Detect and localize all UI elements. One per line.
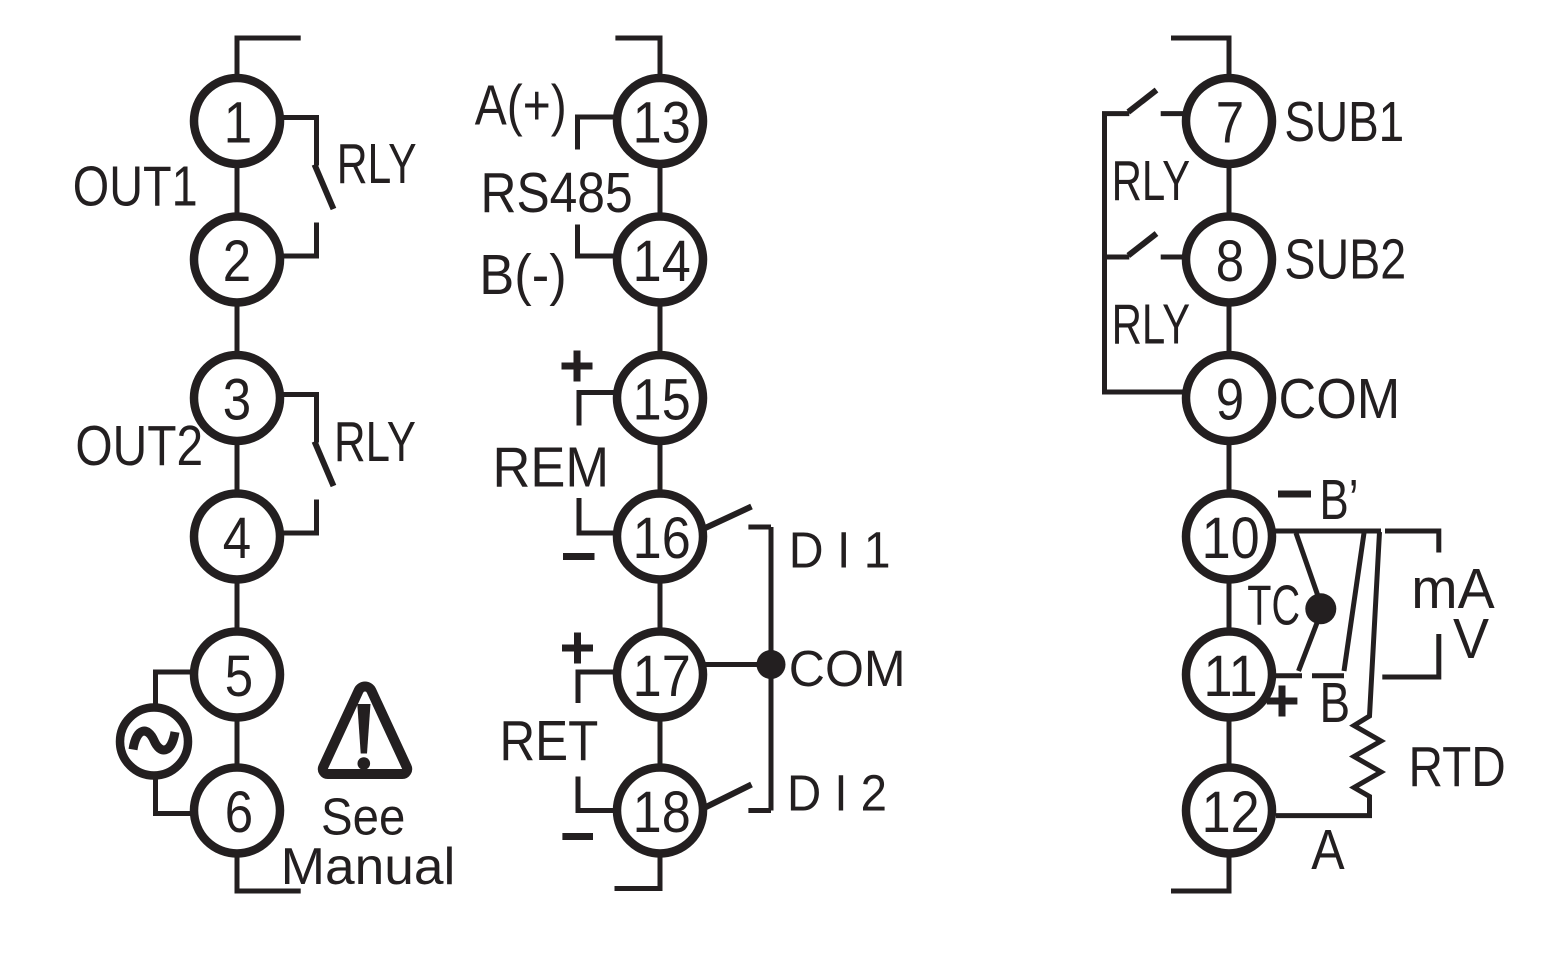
- relay RLY OUT2 blade: [315, 442, 334, 487]
- svg-text:D I 1: D I 1: [789, 521, 891, 579]
- wire terminal8-terminal9: [1227, 307, 1232, 352]
- svg-text:RLY: RLY: [334, 409, 416, 473]
- terminal 1: [194, 78, 280, 164]
- AC source sine symbol: [133, 731, 175, 750]
- wire terminal4-terminal5: [235, 584, 240, 628]
- wire top bracket column 3: [1171, 38, 1229, 74]
- wire terminal7-terminal8: [1227, 168, 1232, 213]
- wire terminal5-terminal6: [235, 722, 240, 764]
- svg-text:6: 6: [225, 780, 253, 845]
- svg-text:REM: REM: [493, 435, 610, 500]
- wire mA V bracket bottom: [1382, 634, 1439, 677]
- switch RLY SUB1 blade: [1128, 90, 1156, 112]
- svg-text:RET: RET: [500, 710, 599, 773]
- terminal 10: [1186, 494, 1272, 580]
- wire TC upper slant: [1296, 533, 1321, 604]
- polarity minus at B': [1278, 491, 1311, 498]
- resistor RTD with leads to terminal 12: [1276, 532, 1381, 816]
- terminal 11: [1186, 632, 1272, 718]
- terminal 17: [617, 632, 703, 718]
- wire A(+) lead to terminal 13: [578, 117, 615, 150]
- svg-text:A(+): A(+): [475, 74, 567, 138]
- wire RET plus lead to terminal 17: [578, 672, 614, 703]
- terminal 13: [617, 78, 703, 164]
- switch DI1 blade at terminal 16: [702, 507, 752, 530]
- wire REM minus lead to terminal 16: [579, 498, 614, 533]
- terminal 14: [617, 217, 703, 303]
- relay RLY OUT1 blade: [315, 165, 334, 210]
- svg-text:11: 11: [1204, 643, 1258, 708]
- wire terminal14-terminal15: [658, 307, 663, 352]
- svg-text:14: 14: [633, 228, 691, 293]
- wire DI common vertical: [769, 527, 774, 811]
- wire terminal 11 horizontal: [1275, 673, 1302, 678]
- wire terminal2-terminal3: [235, 307, 240, 352]
- svg-text:9: 9: [1216, 367, 1244, 432]
- wire bottom bracket column 2: [615, 858, 661, 889]
- wire terminal3-terminal4: [235, 445, 240, 490]
- wire top bracket column 1: [237, 38, 301, 74]
- polarity plus at B: [1267, 686, 1298, 717]
- svg-text:RTD: RTD: [1409, 735, 1506, 799]
- terminal 16: [617, 494, 703, 580]
- wire terminal10-terminal11: [1227, 584, 1232, 628]
- polarity minus at terminal 16: [563, 553, 595, 560]
- wire SUB2 relay tee: [1105, 255, 1130, 260]
- svg-text:RLY: RLY: [337, 131, 417, 195]
- wire terminal15-terminal16: [658, 445, 663, 490]
- svg-text:Manual: Manual: [281, 838, 456, 896]
- terminal 4: [194, 494, 280, 580]
- relay RLY OUT1 wire from terminal 2: [283, 223, 317, 257]
- svg-text:RLY: RLY: [1112, 292, 1191, 356]
- polarity plus at terminal 15: [562, 351, 593, 382]
- svg-text:V: V: [1453, 607, 1489, 671]
- wire terminal 10 top horizontal: [1275, 529, 1381, 534]
- svg-text:D I 2: D I 2: [787, 765, 887, 822]
- polarity minus at terminal 18: [562, 833, 593, 840]
- wire bottom bracket column 3: [1171, 858, 1229, 892]
- svg-text:SUB2: SUB2: [1284, 228, 1406, 291]
- wire bottom bracket column 1: [237, 858, 301, 892]
- wire REM plus lead to terminal 15: [579, 393, 614, 426]
- node COM junction dot: [757, 650, 786, 679]
- terminal 8: [1186, 217, 1272, 303]
- wire AC source to terminal 6: [156, 779, 191, 814]
- svg-text:COM: COM: [789, 640, 906, 698]
- svg-text:RS485: RS485: [481, 162, 633, 225]
- svg-text:10: 10: [1202, 505, 1260, 570]
- node TC junction dot: [1305, 593, 1336, 624]
- terminal 2: [194, 217, 280, 303]
- switch RLY SUB2 blade: [1128, 234, 1156, 256]
- wire DI1 top hook: [748, 525, 771, 530]
- svg-text:8: 8: [1216, 229, 1244, 294]
- svg-text:OUT2: OUT2: [75, 414, 203, 478]
- wire terminal13-terminal14: [658, 168, 663, 213]
- terminal 12: [1186, 768, 1272, 854]
- wire TC lower slant: [1299, 613, 1321, 671]
- wire terminal 17 to COM node: [704, 662, 765, 667]
- wire DI2 bottom hook: [748, 808, 771, 813]
- terminal 18: [617, 768, 703, 854]
- terminal 5: [194, 632, 280, 718]
- wire AC source to terminal 5: [156, 672, 191, 704]
- svg-text:13: 13: [633, 90, 691, 155]
- wire B(-) lead to terminal 14: [578, 225, 615, 257]
- svg-text:12: 12: [1202, 779, 1260, 844]
- svg-text:18: 18: [633, 779, 691, 844]
- svg-text:7: 7: [1216, 90, 1244, 155]
- svg-text:17: 17: [633, 643, 691, 708]
- wire relay common rail column 3: [1105, 114, 1185, 392]
- polarity plus at terminal 17: [562, 633, 593, 664]
- wire terminal16-terminal17: [658, 584, 663, 628]
- wire terminal1-terminal2: [235, 168, 240, 213]
- svg-text:OUT1: OUT1: [73, 155, 198, 218]
- svg-text:B’: B’: [1320, 467, 1359, 531]
- wire terminal11-terminal12: [1227, 722, 1232, 764]
- svg-text:16: 16: [633, 505, 691, 570]
- svg-text:1: 1: [224, 90, 252, 155]
- relay RLY OUT2 wire from terminal 4: [283, 500, 317, 534]
- terminal 15: [617, 355, 703, 441]
- AC power source circle: [120, 708, 188, 776]
- terminal 7: [1186, 78, 1272, 164]
- svg-text:A: A: [1311, 818, 1345, 882]
- svg-text:RLY: RLY: [1112, 149, 1191, 213]
- wire RET minus lead to terminal 18: [578, 777, 614, 811]
- svg-text:SUB1: SUB1: [1284, 89, 1404, 153]
- wire SUB1 dash to terminal 7: [1161, 111, 1183, 116]
- wire terminal9-terminal10: [1227, 445, 1232, 490]
- terminal 3: [194, 355, 280, 441]
- wire top bracket column 2: [615, 38, 660, 74]
- wire terminal17-terminal18: [658, 722, 663, 764]
- svg-text:3: 3: [223, 367, 251, 432]
- relay RLY OUT1 wire from terminal 1: [283, 118, 317, 166]
- svg-text:TC: TC: [1247, 575, 1300, 638]
- svg-text:B(-): B(-): [479, 242, 566, 306]
- relay RLY OUT2 wire from terminal 3: [283, 395, 317, 443]
- terminal 9: [1186, 355, 1272, 441]
- wire mA V selector slant: [1344, 533, 1364, 671]
- svg-text:15: 15: [633, 367, 691, 432]
- terminal 6: [194, 768, 280, 854]
- svg-text:5: 5: [225, 644, 253, 709]
- warning triangle symbol: [323, 687, 407, 774]
- wire B lead short horizontal: [1312, 673, 1344, 678]
- svg-text:COM: COM: [1279, 367, 1401, 431]
- svg-text:2: 2: [223, 229, 251, 294]
- svg-text:4: 4: [223, 506, 251, 571]
- switch DI2 blade at terminal 18: [705, 785, 752, 808]
- svg-text:B: B: [1320, 670, 1351, 734]
- wire SUB2 dash to terminal 8: [1161, 255, 1183, 260]
- wire mA V bracket top: [1385, 531, 1439, 553]
